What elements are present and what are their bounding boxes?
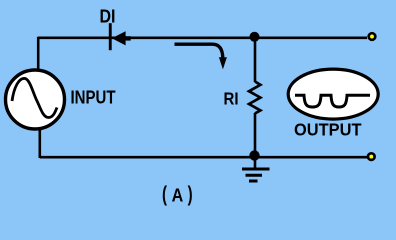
svg-text:(: ( xyxy=(162,183,167,206)
svg-text:): ) xyxy=(188,183,193,206)
svg-text:RI: RI xyxy=(224,89,239,109)
svg-text:OUTPUT: OUTPUT xyxy=(294,119,362,139)
svg-text:A: A xyxy=(172,185,184,206)
svg-text:DI: DI xyxy=(100,7,116,27)
svg-text:INPUT: INPUT xyxy=(71,87,116,107)
